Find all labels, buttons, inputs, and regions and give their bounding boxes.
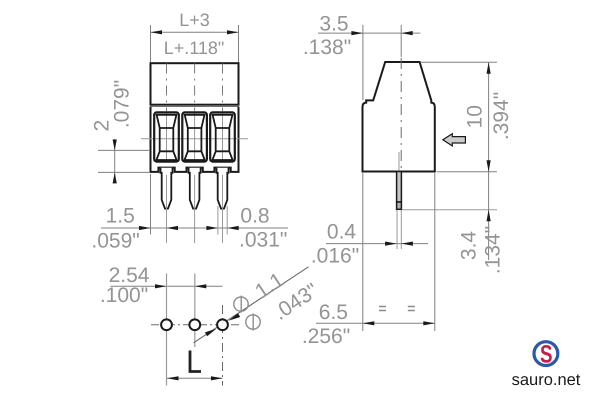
pin 3 front outline <box>217 168 229 209</box>
leader arrowhead lower-left <box>205 329 216 336</box>
svg-text:.031": .031" <box>239 229 287 252</box>
arrowhead right at pin3 left edge <box>206 226 218 230</box>
svg-text:0.8: 0.8 <box>240 205 269 228</box>
svg-text:sauro.net: sauro.net <box>512 371 581 389</box>
hole 1 <box>161 319 172 330</box>
svg-text:6.5: 6.5 <box>319 301 348 324</box>
leader line for hole diameter <box>194 267 309 343</box>
dimension 2 line <box>114 139 116 184</box>
dimension 2 extension line bottom <box>98 171 150 173</box>
side body outline <box>363 62 435 172</box>
clamp opening 1 outer <box>154 112 179 161</box>
svg-text:.079": .079" <box>111 80 134 128</box>
dimension 6.5 line <box>316 322 435 324</box>
extension line left of L+3 <box>150 25 152 62</box>
arrowhead right L <box>211 376 223 380</box>
body divider line <box>151 106 239 108</box>
centerline pole 1 (dash-dot upper) <box>166 64 168 112</box>
arrowhead left 6.5 <box>363 321 375 325</box>
arrowhead left 3.5 <box>401 31 413 35</box>
pin 2 front outline <box>189 168 201 209</box>
arrowhead left at pin right <box>401 242 413 246</box>
svg-text:.134": .134" <box>482 226 505 274</box>
L label <box>190 351 201 372</box>
arrowhead right 6.5 <box>423 321 435 325</box>
pin 3 centerline lower <box>222 175 224 243</box>
svg-text:10: 10 <box>464 105 487 128</box>
svg-text:.100": .100" <box>100 284 148 307</box>
arrowhead right L+3 <box>227 30 239 34</box>
clamp opening 2 funnel <box>185 115 205 160</box>
body lower block outline with pin notches <box>151 107 239 172</box>
phi symbol for 1.1 <box>234 297 248 311</box>
pin 1 centerline lower <box>166 175 168 243</box>
arrowhead right 3.5 <box>351 31 363 35</box>
hole1 centerline vertical <box>166 274 168 386</box>
clamp opening 3 outer <box>210 112 235 161</box>
equal mark left <box>379 307 386 311</box>
extension line centerline upper <box>400 25 402 57</box>
svg-text:L+.118": L+.118" <box>164 38 225 58</box>
svg-text:.394": .394" <box>490 92 513 140</box>
svg-text:.059": .059" <box>91 229 139 252</box>
pin3 right edge extension <box>226 206 228 235</box>
dimension line 1.5 / 0.8 <box>101 227 288 229</box>
ext line body bottom right (y=171.8) <box>437 171 498 173</box>
hole 2 <box>189 319 200 330</box>
arrowhead down at body bottom <box>487 160 491 172</box>
svg-text:1.5: 1.5 <box>106 205 135 228</box>
horizontal centerline through holes <box>151 324 241 326</box>
centerline pole 2 through opening <box>194 112 196 162</box>
extension line right of L+3 <box>238 25 240 62</box>
equal mark right <box>408 307 415 311</box>
svg-text:3.4: 3.4 <box>458 231 481 261</box>
pin3 left edge extension <box>217 206 219 235</box>
pin 2 centerline lower <box>194 175 196 243</box>
dimension line L+3 <box>151 31 239 33</box>
clamp opening 2 outer <box>182 112 207 161</box>
centerline pole 1 through opening <box>166 112 168 162</box>
body upper block outline <box>151 63 239 104</box>
hole 3 <box>217 319 228 330</box>
ext line pin tip (y=209.8) <box>403 209 498 211</box>
centerline pole 2 (dash-dot upper) <box>194 64 196 112</box>
arrowhead down dim2 <box>113 140 117 151</box>
arrowhead left at pin3 right edge <box>227 226 239 230</box>
dimension 0.4 line <box>326 243 428 245</box>
arrowhead left at pin1 center <box>167 226 179 230</box>
ext line right for 6.5 <box>434 173 436 331</box>
svg-text:.256": .256" <box>302 325 350 348</box>
clamp opening 1 funnel <box>156 115 176 160</box>
wire entry arrow <box>443 134 466 146</box>
arrowhead right at pin left <box>385 242 397 246</box>
leader arrowhead upper-right <box>229 313 240 320</box>
svg-text:0.4: 0.4 <box>327 221 357 244</box>
svg-text:3.5: 3.5 <box>319 12 348 35</box>
pin 1 front outline <box>161 168 173 209</box>
pin side view tip <box>397 202 402 209</box>
logo blue ring <box>534 342 558 366</box>
svg-text:L+3: L+3 <box>179 10 210 30</box>
phi symbol for .043" <box>246 315 260 329</box>
body-left extension line for 1.5 <box>150 174 152 235</box>
horizontal centerline through clamp openings <box>141 138 248 140</box>
svg-text:S: S <box>540 341 553 369</box>
ext line top right (y=62) <box>421 61 497 63</box>
hole3 centerline vertical dash-dot <box>222 305 224 386</box>
centerline pole 3 through opening <box>222 112 224 162</box>
svg-text:.138": .138" <box>303 36 351 59</box>
arrowhead right at body edge <box>139 226 151 230</box>
arrowhead up dim2 <box>113 173 117 184</box>
dimension 3.5 line <box>318 32 420 34</box>
dimension L line <box>167 377 223 379</box>
hole2 centerline vertical <box>194 274 196 348</box>
vertical dimension line 10 / 3.4 <box>488 62 490 260</box>
centerline pole 3 (dash-dot upper) <box>222 64 224 112</box>
body centerline dash-dot <box>400 58 402 171</box>
arrowhead up at body top <box>487 62 491 74</box>
dimension 2 extension line top <box>98 149 150 151</box>
extension line body-left 3.5 <box>362 25 364 100</box>
pin right edge ext below <box>400 210 402 249</box>
pin centerline below <box>396 210 398 249</box>
ext line left for 6.5 <box>362 173 364 331</box>
arrowhead right at hole1 <box>155 284 167 288</box>
svg-text:.016": .016" <box>311 244 359 267</box>
arrowhead left L <box>167 376 179 380</box>
pin side view body <box>397 172 402 203</box>
arrowhead left L+3 <box>151 30 163 34</box>
pin centerline inside body <box>398 152 400 172</box>
arrowhead left at hole2 <box>195 284 207 288</box>
arrowhead up at pin tip line <box>487 210 491 222</box>
clamp opening 3 funnel <box>212 115 232 160</box>
dimension 2.54 line <box>111 285 223 287</box>
